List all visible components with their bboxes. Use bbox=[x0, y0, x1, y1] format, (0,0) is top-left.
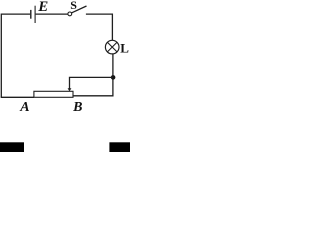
black bar bottom-right bbox=[109, 142, 130, 152]
battery E: long plate (right, positive) bbox=[34, 6, 36, 23]
lamp L: cross bbox=[107, 42, 117, 52]
junction node dot bbox=[111, 75, 116, 80]
rheostat box A-B bbox=[34, 91, 73, 97]
black bar bottom-left bbox=[0, 142, 24, 152]
switch S: open lever bbox=[72, 6, 87, 13]
svg-text:E: E bbox=[37, 0, 48, 15]
switch S: pivot circle bbox=[68, 12, 72, 16]
wire: lamp down to bottom-right corner and left to rheostat right end B bbox=[73, 54, 113, 96]
svg-text:L: L bbox=[120, 40, 129, 55]
wire: left side, from bottom-left corner up and right to battery bbox=[1, 14, 30, 97]
wire: switch to top-right corner, down to lamp bbox=[86, 14, 113, 40]
svg-text:S: S bbox=[70, 0, 77, 12]
slider arrowhead bbox=[68, 88, 72, 91]
wire: bottom-left to rheostat left end A bbox=[1, 96, 34, 98]
wire: branch from junction left then down to slider arrow bbox=[70, 77, 113, 88]
svg-text:A: A bbox=[19, 100, 29, 115]
lamp L: circle bbox=[105, 40, 119, 54]
wire: battery to switch bbox=[36, 13, 68, 15]
battery E: short plate (left, negative) bbox=[30, 10, 32, 19]
svg-text:B: B bbox=[72, 100, 82, 115]
